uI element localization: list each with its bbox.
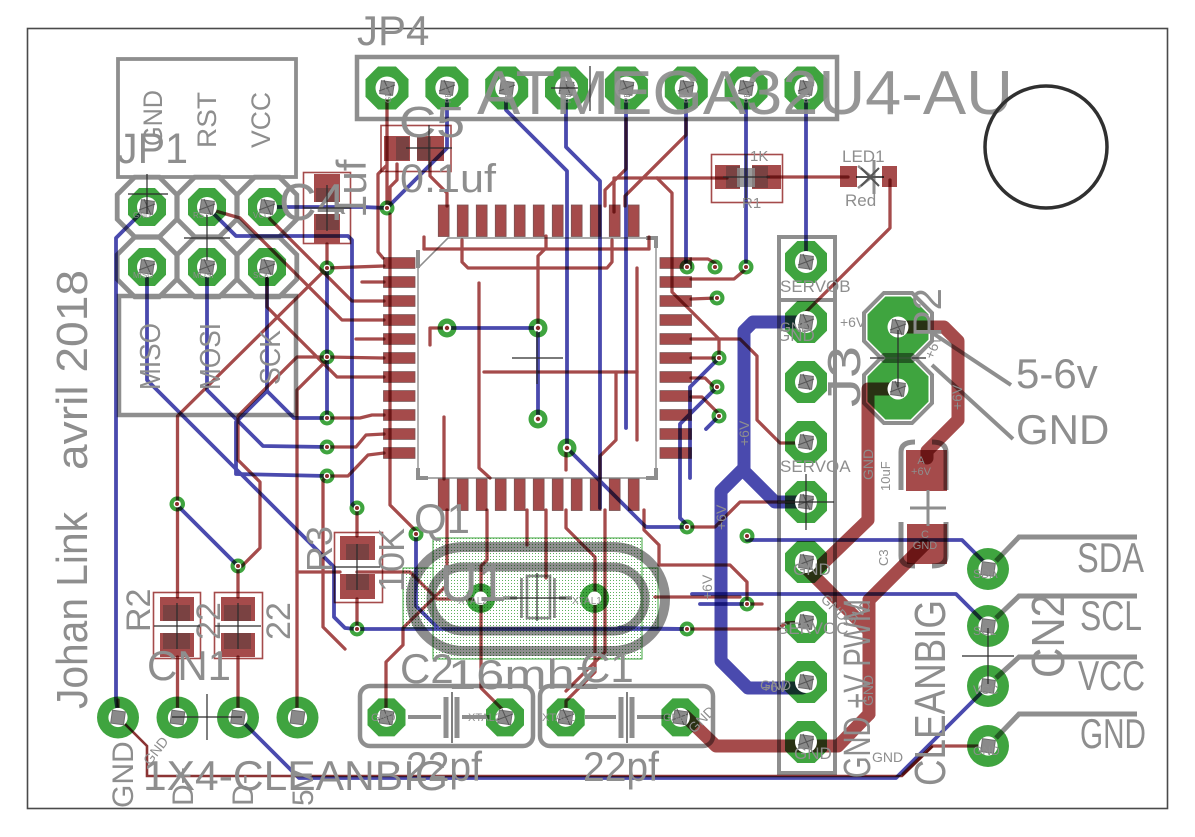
wire via687 to J3-5: [692, 502, 800, 527]
label leader line GND (P2): [932, 365, 1013, 439]
hole of pad JP4-4: [555, 77, 578, 100]
resistor R3 footprint: [335, 533, 383, 603]
wire QFP-T10 diag: [625, 119, 686, 206]
svg-text:16mhz: 16mhz: [448, 651, 600, 698]
wire via747-536 to SDA: [747, 540, 988, 569]
origin cross R3: [334, 544, 380, 590]
svg-text:RST: RST: [192, 92, 222, 148]
wire xtal right to via: [659, 565, 747, 600]
wire JP4-2 blue: [387, 88, 447, 208]
svg-text:1K: 1K: [750, 148, 768, 165]
wire SCL line: [692, 594, 988, 626]
svg-text:SCL: SCL: [973, 624, 997, 638]
hole of via 8: [235, 563, 242, 570]
svg-text:CN2: CN2: [1022, 594, 1074, 678]
via 8: [231, 559, 246, 574]
wire QFP-R7 via: [691, 378, 717, 387]
wire blue diag left: [236, 391, 327, 476]
hole of via 2: [324, 265, 331, 272]
wire QFP-L row3 to JP1 VCC: [267, 211, 384, 301]
pad C2-2 XTAL2: [486, 698, 524, 736]
wire thick GND vert: [863, 600, 876, 714]
pad P2-2 GND: [868, 359, 929, 420]
wire via238 to via177: [179, 507, 238, 566]
pad CN1-1 GND: [97, 697, 139, 739]
connector P2 pad outlines: [864, 293, 932, 361]
svg-text:22: 22: [190, 602, 228, 640]
crystal Q1 stadium outline outer: [411, 547, 665, 651]
wire CN1-4 5V: [297, 361, 326, 717]
via 14: [708, 260, 723, 275]
pad JP4-4: [545, 67, 588, 110]
capacitor C1 symbol: [621, 697, 632, 738]
svg-text:GND: GND: [793, 560, 831, 579]
pad JP4-5: [605, 67, 648, 110]
svg-text:0.1uf: 0.1uf: [400, 157, 497, 201]
hole of via 23: [174, 501, 181, 508]
wire CN1-2 to R2a: [176, 657, 179, 717]
crystal Q1 stadium outline inner: [431, 567, 645, 631]
LED1 pads: [840, 166, 857, 187]
wire QFP-R3 via: [691, 298, 717, 299]
via 20: [680, 622, 695, 637]
svg-text:P2: P2: [906, 288, 950, 337]
svg-text:PB3: PB3: [683, 87, 692, 103]
pad J3-9: [785, 721, 827, 763]
capacitor C3 body brackets: [901, 442, 946, 566]
hole of pad JP1-5 SCK: [257, 257, 277, 277]
wire C4 bottom to via: [325, 244, 328, 268]
hole of via 12: [684, 264, 691, 271]
svg-text:GND: GND: [1016, 406, 1109, 453]
crystal symbol inside Q1: [503, 576, 572, 618]
pad CN2-3 VCC: [967, 665, 1009, 707]
svg-text:GND: GND: [860, 449, 876, 480]
via 17: [710, 380, 725, 395]
wire R3 bottom via: [355, 599, 358, 629]
wire JP1-SCK5 down: [267, 267, 327, 418]
hole of pad CN1-3 D-: [228, 708, 247, 727]
origin cross R2b: [215, 603, 261, 649]
wire R2a to via: [176, 504, 179, 597]
hole of via 1: [384, 205, 391, 212]
hole of via 11: [413, 531, 420, 538]
hole of via big 1: [443, 324, 451, 332]
pad P2-1 5-6v: [868, 297, 929, 358]
svg-text:22: 22: [260, 602, 298, 640]
svg-text:GND: GND: [860, 675, 876, 706]
crystal Q1 polygon hatch: [403, 538, 658, 659]
pad CN1-3 D-: [217, 697, 259, 739]
origin cross QFP: [512, 331, 563, 384]
svg-text:MOSI: MOSI: [193, 271, 213, 280]
wire via416 down: [416, 534, 437, 627]
hole of pad JP4-3: [495, 77, 518, 100]
wire JP1-RST4 blue: [207, 207, 356, 508]
wire JP1-GND2 down: [116, 207, 147, 714]
svg-text:Johan Link: Johan Link: [48, 511, 97, 709]
via 4: [320, 411, 335, 426]
LED1 diode symbol: [856, 160, 884, 194]
wire QFP inner stub: [564, 448, 567, 470]
via 6: [320, 469, 335, 484]
pad C2-1 GND: [368, 698, 406, 736]
connector JP4 body box: [357, 57, 837, 119]
wire R1 to LED1: [768, 175, 848, 178]
svg-text:+6V: +6V: [699, 574, 715, 600]
wire QFP inner wide staple: [424, 247, 649, 250]
origin cross R1: [723, 154, 770, 200]
svg-text:SCL: SCL: [1080, 592, 1142, 639]
via 13: [739, 260, 754, 275]
label leader line 5-6v: [928, 330, 1011, 385]
svg-text:PB4: PB4: [623, 87, 632, 103]
svg-text:GND: GND: [1080, 710, 1146, 757]
pad CN2-1 SDA: [967, 548, 1009, 590]
svg-text:GND: GND: [384, 85, 393, 103]
wire CN2-GND left: [903, 746, 988, 774]
wire CN1-3 to bottom: [238, 686, 988, 778]
wire CN1-1 up: [116, 700, 119, 717]
wire thick +6V branch J3-5: [744, 468, 802, 502]
hole of via 17: [714, 384, 721, 391]
pad JP4-7: [725, 67, 768, 110]
svg-text:MISO: MISO: [135, 323, 167, 390]
wire via567 diag: [567, 448, 687, 527]
pad J3-8: [785, 661, 827, 703]
svg-text:+6V: +6V: [911, 466, 932, 478]
wire CN1-3 to R2b: [236, 657, 239, 717]
wire QFP-R2 via: [691, 267, 746, 279]
svg-text:PB1: PB1: [803, 87, 812, 103]
capacitor C2 symbol: [446, 697, 457, 738]
hole of pad Q1 XTAL1: [588, 592, 601, 605]
svg-text:PB7: PB7: [444, 87, 453, 103]
svg-text:VCC: VCC: [1078, 652, 1145, 699]
svg-text:+6V: +6V: [840, 314, 866, 330]
IC U1 QFP pads left column: [384, 258, 416, 269]
wire thick GND C3 diag: [869, 545, 924, 600]
via 7: [170, 497, 185, 512]
svg-text:C5: C5: [399, 98, 465, 147]
via big 1: [438, 319, 457, 338]
wire QFP-B6 to xtal sym: [544, 510, 547, 578]
svg-text:PB5: PB5: [564, 87, 573, 103]
wire JP1-MISO1 down: [147, 267, 356, 629]
svg-text:VCC: VCC: [253, 211, 270, 220]
svg-text:SERVOA: SERVOA: [780, 457, 851, 476]
hole of pad JP4-6: [675, 77, 698, 100]
hole of pad CN2-4 GND: [978, 736, 997, 755]
wire thick +6V J3-2 left: [744, 322, 806, 468]
pad JP1-3 MOSI: [188, 248, 226, 286]
origin cross JP1: [128, 174, 168, 214]
svg-text:GND: GND: [138, 90, 168, 146]
svg-text:GND: GND: [780, 319, 811, 335]
pad J3-5: [785, 481, 827, 523]
wire via747-604 left: [700, 602, 747, 606]
wire via387 down long: [390, 214, 416, 531]
wire via687-629 left: [619, 628, 687, 629]
connector JP1 pin grid: [117, 177, 177, 237]
svg-text:XTAL1: XTAL1: [542, 712, 575, 724]
svg-text:GND: GND: [794, 744, 832, 763]
svg-text:PB6: PB6: [504, 87, 513, 103]
wire thick GND J3-6 diag: [807, 569, 869, 631]
svg-text:Q1: Q1: [414, 495, 470, 542]
wire JP4-8 blue: [804, 88, 808, 258]
wire QFP inner vert mid: [538, 236, 546, 268]
origin cross CN2: [962, 628, 1014, 684]
svg-text:R2: R2: [120, 589, 158, 632]
via 22: [740, 597, 755, 612]
label leader line SCL: [996, 596, 1137, 618]
svg-text:GND: GND: [107, 741, 140, 808]
svg-text:CN1: CN1: [147, 642, 231, 689]
svg-text:VCC: VCC: [973, 683, 999, 697]
label leader line VCC: [996, 657, 1137, 678]
origin cross C3: [910, 490, 946, 526]
svg-text:R1: R1: [742, 195, 761, 212]
pad J3-6: [785, 541, 827, 583]
wire JP1-MOSI3 down: [207, 267, 327, 447]
wire thick +6V down: [721, 468, 802, 688]
origin cross P2: [870, 330, 926, 387]
via 5: [320, 440, 335, 455]
wire via327-418 right: [327, 415, 384, 418]
wire R3 to XTAL2: [357, 572, 481, 599]
wire via327-447 right: [327, 434, 384, 447]
pad CN1-4 5V: [277, 697, 319, 739]
via 18: [712, 409, 727, 424]
capacitor C3 pads: [906, 450, 947, 491]
wire 5V to R3 row: [297, 570, 340, 573]
wire thick +6V P2 to C3: [898, 327, 958, 458]
hole of pad JP4-7: [735, 77, 758, 100]
resistor R2 footprint B: [215, 593, 263, 659]
svg-text:SERVOB: SERVOB: [780, 277, 851, 296]
hole of pad J3-8: [795, 671, 817, 693]
wire QFP-R1 via: [691, 259, 715, 267]
wire via327-268 right: [327, 266, 384, 268]
pad JP1-2 GND: [128, 188, 166, 226]
wire QFP wide staple stub L: [422, 237, 425, 249]
svg-text:CLEANBIG: CLEANBIG: [906, 600, 955, 786]
pad JP4-2: [425, 67, 468, 110]
origin cross C1: [626, 692, 628, 743]
wire R1 left: [614, 178, 727, 212]
capacitor C1 body box: [540, 686, 713, 746]
hole of via 14: [712, 264, 719, 271]
via 10: [350, 622, 365, 637]
wire via719-416 branch: [706, 416, 719, 429]
origin cross CN1: [172, 694, 242, 740]
hole of via 13: [743, 264, 750, 271]
pad JP4-8: [785, 67, 828, 110]
svg-text:SCK: SCK: [253, 271, 270, 280]
wire JP1-VCC6 blue: [267, 207, 387, 208]
hole of pad JP4-8: [794, 77, 817, 100]
svg-text:XTAL2: XTAL2: [458, 596, 488, 607]
wire QFP via link blue: [447, 328, 538, 419]
hole of pad J3-9: [795, 731, 817, 753]
wire blue via column: [325, 268, 329, 418]
pad Q1 XTAL1: [580, 584, 609, 613]
origin cross J3-5: [778, 474, 834, 530]
hole of pad JP1-6 VCC: [257, 197, 277, 217]
wire R1 branch right: [657, 178, 719, 358]
hole of via 9: [354, 505, 361, 512]
svg-text:GND: GND: [913, 540, 938, 552]
svg-text:5-6v: 5-6v: [1016, 350, 1098, 397]
via 21: [740, 529, 755, 544]
svg-text:GND: GND: [663, 712, 688, 724]
hole of pad Q1 XTAL2: [474, 592, 487, 605]
svg-text:1X4-CLEANBIG: 1X4-CLEANBIG: [143, 752, 448, 799]
hole of via 7: [174, 501, 181, 508]
hole of pad P2-1 5-6v: [888, 317, 909, 338]
hole of via 21: [744, 533, 751, 540]
svg-text:MISO: MISO: [133, 271, 153, 280]
pad J3-7: [785, 601, 827, 643]
pad JP4-6: [665, 67, 708, 110]
resistor R1 footprint: [712, 155, 783, 203]
hole of pad J3-7: [795, 611, 817, 633]
hole of pad CN2-2 SCL: [978, 616, 997, 635]
svg-text:10K: 10K: [371, 528, 412, 592]
via 16: [712, 351, 727, 366]
hole of pad JP1-4 RST: [197, 197, 217, 217]
hole of via 10: [354, 626, 361, 633]
hole of via 18: [716, 413, 723, 420]
pad JP4-3: [485, 67, 528, 110]
wire QFP-B3 to XTAL2: [481, 510, 487, 599]
origin cross JP4: [551, 66, 590, 111]
resistor R2 footprint A: [154, 593, 201, 659]
svg-text:GND: GND: [872, 749, 903, 765]
IC U1 QFP pads top row: [384, 205, 692, 511]
svg-text:R3: R3: [299, 526, 340, 572]
svg-text:MOSI: MOSI: [195, 323, 227, 390]
capacitor C5 footprint: [381, 126, 451, 172]
wire via719-358 branch: [690, 358, 719, 478]
wire QFP pad B1 stub: [442, 417, 445, 479]
pad J3-2: [785, 301, 827, 343]
wire XTAL1 to C1-1: [566, 600, 595, 717]
wire QFP-R8 via: [691, 397, 719, 416]
pad CN1-2 D+: [157, 697, 199, 739]
origin cross C5: [406, 125, 452, 171]
wire via327-476 right: [327, 453, 384, 476]
hole of pad C2-2 XTAL2: [496, 708, 515, 727]
svg-text:+6V: +6V: [736, 420, 752, 446]
svg-text:SCK: SCK: [255, 329, 287, 385]
hole of pad J3-5: [795, 491, 817, 513]
wire via717-387 branch: [680, 387, 717, 527]
hole of via 5: [324, 444, 331, 451]
pad J3-3: [785, 361, 827, 403]
origin cross R2a: [154, 603, 200, 649]
hole of via big 3: [534, 415, 542, 423]
svg-text:C2: C2: [400, 645, 454, 692]
hole of via 22: [744, 601, 751, 608]
wire thick GND bottom: [685, 714, 869, 746]
pad CN2-4 GND: [967, 725, 1009, 767]
wire xtal right2: [655, 595, 740, 598]
wire via327-357 right: [327, 357, 384, 358]
wire via to via diag: [178, 268, 328, 504]
label leader line GND (CN2): [996, 714, 1137, 738]
svg-text:SDA: SDA: [973, 567, 998, 581]
svg-text:avril 2018: avril 2018: [48, 270, 97, 470]
hole of pad CN1-4 5V: [288, 708, 307, 727]
wire XTAL2 to C2-2: [481, 599, 504, 717]
hole of pad C1-2 GND: [671, 708, 690, 727]
wire QFP inner left vert: [479, 283, 490, 478]
wire via327-476 down: [323, 476, 345, 649]
svg-text:LED1: LED1: [842, 147, 885, 166]
wire QFP-B11 right: [644, 510, 659, 565]
wire LED1 down: [806, 180, 890, 312]
hole of pad J3-6: [795, 551, 817, 573]
hole of via big 2: [534, 324, 542, 332]
svg-text:SDA: SDA: [1077, 534, 1144, 581]
wire C5 right to QFP: [430, 162, 447, 206]
hole of via 3: [324, 354, 331, 361]
wire MOSI long bottom: [356, 627, 687, 631]
hole of pad CN2-1 SDA: [978, 559, 997, 578]
via 1: [380, 201, 395, 216]
svg-text:C1: C1: [580, 644, 634, 691]
pad J3-4: [785, 421, 827, 463]
hole of via 15: [714, 295, 721, 302]
hole of pad J3-4: [795, 431, 817, 453]
svg-text:10uF: 10uF: [878, 461, 893, 491]
wire via747-604 stub: [747, 602, 762, 605]
hole of pad J3-2: [795, 311, 817, 333]
via 3: [320, 350, 335, 365]
via 11: [409, 527, 424, 542]
wire GND thin bottom: [118, 717, 932, 776]
wire QFP-L row4 to JP1: [212, 210, 384, 320]
via 19: [680, 520, 695, 535]
wire QFP-L row2 stub: [362, 280, 384, 283]
hole of pad JP4-1: [376, 77, 399, 100]
origin cross C2: [451, 692, 453, 743]
svg-text:J3: J3: [818, 346, 870, 407]
IC U1 QFP pads right column: [660, 258, 692, 269]
hole of via big 4: [563, 444, 571, 452]
svg-text:PB2: PB2: [743, 87, 752, 103]
wire QFP via hook: [430, 328, 447, 345]
hole of via 20: [684, 626, 691, 633]
svg-text:GND: GND: [760, 677, 791, 693]
origin cross Q1: [510, 573, 566, 621]
hole of pad P2-2 GND: [888, 379, 909, 400]
wire QFP-B9 to C1-1: [566, 510, 605, 691]
svg-text:GND: GND: [973, 744, 1000, 758]
wire via327-357 diag: [238, 357, 327, 566]
wire JP4-7 blue: [744, 88, 748, 262]
wire QFP via stub red: [536, 268, 539, 328]
wire QFP-B5 stub: [525, 510, 528, 545]
hole of pad JP1-3 MOSI: [197, 257, 217, 277]
svg-text:C3: C3: [876, 549, 891, 566]
hole of pad J3-3: [795, 371, 817, 393]
wire JP4-3 blue: [506, 88, 567, 448]
hole of pad CN1-2 D+: [168, 708, 187, 727]
svg-text:JP4: JP4: [357, 7, 429, 54]
